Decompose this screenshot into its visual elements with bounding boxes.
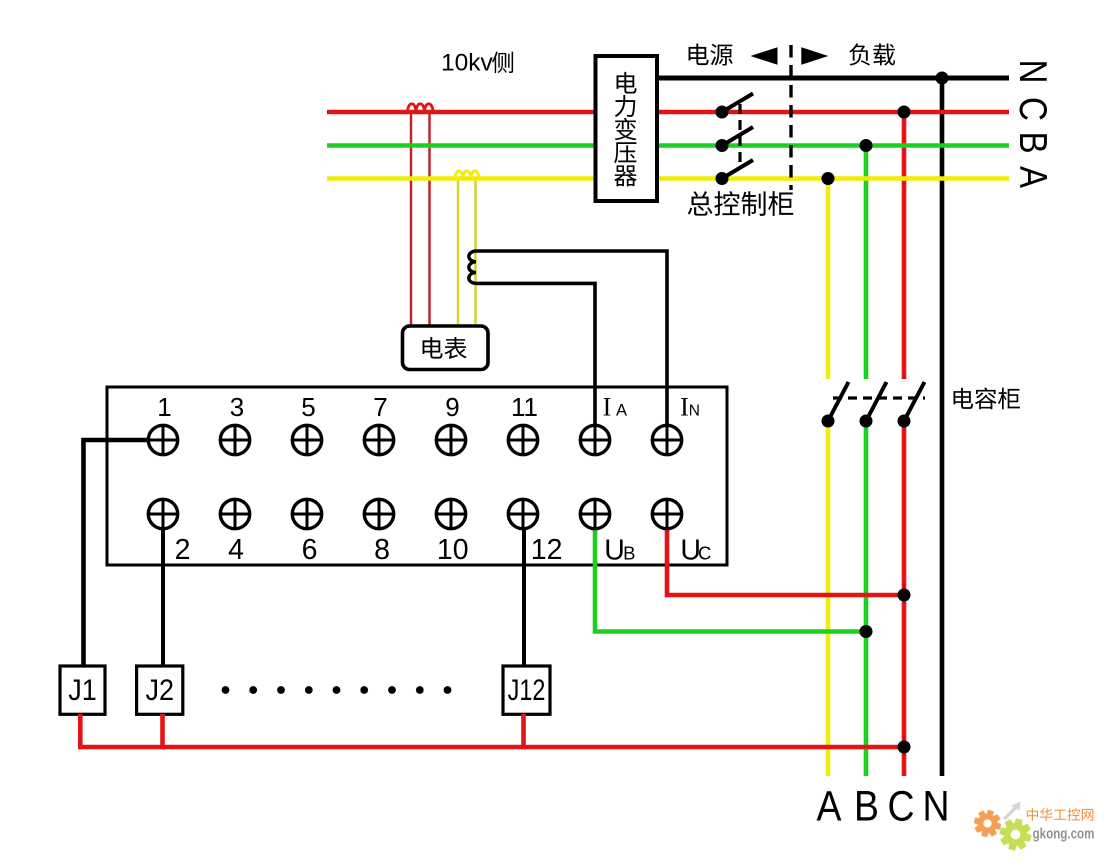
CT coil on phase C bus (red) bbox=[408, 104, 434, 112]
svg-text:7: 7 bbox=[373, 392, 387, 422]
svg-text:N: N bbox=[922, 782, 949, 830]
terminal screw (595,440) bbox=[580, 425, 609, 454]
capacitor switch on feeder x=828 bbox=[822, 382, 849, 428]
terminal screw (307,440) bbox=[292, 425, 321, 454]
breaker switch on bus y=145.5 bbox=[716, 127, 754, 152]
svg-text:U: U bbox=[604, 535, 625, 567]
breaker switch on bus y=112 bbox=[716, 94, 754, 119]
svg-text:8: 8 bbox=[374, 534, 390, 566]
wire phase C bus (red) bbox=[327, 110, 1009, 115]
capacitor switch on feeder x=866 bbox=[860, 382, 887, 428]
wire UC to C feeder (red) bbox=[667, 528, 904, 595]
terminal screw (523,514) bbox=[508, 499, 537, 528]
svg-text:B: B bbox=[854, 782, 879, 830]
svg-text:I: I bbox=[680, 393, 689, 422]
capacitor switch linkage dashed bbox=[833, 396, 925, 399]
svg-text:6: 6 bbox=[302, 534, 318, 566]
svg-text:gkong.com: gkong.com bbox=[1033, 825, 1095, 842]
node junction (904,747) bbox=[898, 741, 911, 754]
svg-text:I: I bbox=[603, 393, 612, 422]
svg-text:C: C bbox=[1011, 97, 1055, 121]
terminal block bbox=[107, 387, 727, 565]
svg-text:10: 10 bbox=[437, 534, 469, 566]
terminal screw (379,440) bbox=[364, 425, 393, 454]
terminal screw (595,514) bbox=[580, 499, 609, 528]
node junction (942,78) bbox=[936, 72, 949, 85]
svg-text:9: 9 bbox=[445, 392, 459, 422]
terminal screw (235,440) bbox=[220, 425, 249, 454]
terminal screw (163,514) bbox=[148, 499, 177, 528]
wire coil to terminal IN bbox=[476, 251, 667, 424]
terminal screw (523,440) bbox=[508, 425, 537, 454]
meter CT coil (black) bbox=[469, 251, 476, 283]
wire phase B feeder vertical (green) bbox=[864, 146, 869, 777]
label 电容柜 bbox=[953, 387, 1019, 409]
svg-text:3: 3 bbox=[230, 392, 244, 422]
svg-text:5: 5 bbox=[301, 392, 315, 422]
arrow right bbox=[801, 47, 828, 65]
node junction (866,145.5) bbox=[860, 139, 873, 152]
svg-text:2: 2 bbox=[175, 534, 191, 566]
logo gkong watermark bbox=[974, 802, 1095, 851]
svg-text:J2: J2 bbox=[145, 674, 174, 708]
capacitor switch on feeder x=904 bbox=[898, 382, 925, 428]
svg-text:J1: J1 bbox=[68, 674, 97, 708]
label 负载 bbox=[849, 43, 895, 65]
wire coil to terminal IA bbox=[476, 283, 595, 424]
terminal screw (667,440) bbox=[652, 425, 681, 454]
terminal screw (163,440) bbox=[148, 425, 177, 454]
label 电源 bbox=[689, 43, 733, 65]
wire terminal1 to J1 bbox=[84, 440, 151, 665]
wire CT-C secondary leads (yellow) bbox=[458, 178, 476, 326]
wire terminal12 to J12 bbox=[522, 528, 526, 665]
svg-text:B: B bbox=[1011, 131, 1055, 153]
wire J1 drop (red) bbox=[78, 714, 83, 749]
label 总控制柜 bbox=[688, 191, 794, 216]
svg-text:A: A bbox=[1011, 166, 1055, 189]
svg-text:10kv: 10kv bbox=[441, 50, 494, 77]
wire phase B bus (green) bbox=[327, 143, 1009, 148]
terminal screw (235,514) bbox=[220, 499, 249, 528]
svg-text:12: 12 bbox=[531, 534, 563, 566]
svg-text:A: A bbox=[817, 782, 842, 830]
terminal screw (379,514) bbox=[364, 499, 393, 528]
terminal screw (451,514) bbox=[436, 499, 465, 528]
node junction (904,595) bbox=[898, 589, 911, 602]
wire phase A feeder vertical (yellow) bbox=[826, 179, 831, 777]
node junction (866,631.5) bbox=[860, 625, 873, 638]
wire neutral feeder vertical (black) bbox=[940, 78, 945, 776]
svg-text:4: 4 bbox=[228, 534, 244, 566]
svg-text:11: 11 bbox=[511, 392, 538, 422]
wire J2 drop (red) bbox=[160, 714, 165, 749]
relay box J12 bbox=[503, 666, 550, 714]
svg-text:C: C bbox=[887, 782, 914, 830]
wire neutral bus N (black) bbox=[657, 76, 1009, 81]
svg-text:N: N bbox=[1011, 60, 1055, 84]
node junction (828,178.5) bbox=[822, 172, 835, 185]
wire bottom red bus bbox=[78, 745, 904, 750]
terminal screw (307,514) bbox=[292, 499, 321, 528]
breaker linkage dashed bbox=[738, 104, 741, 168]
wire terminal2 to J2 bbox=[161, 528, 165, 665]
terminal screw (667,514) bbox=[652, 499, 681, 528]
wire UB to B feeder (green) bbox=[595, 528, 866, 632]
terminal screw (451,440) bbox=[436, 425, 465, 454]
relay box J2 bbox=[137, 666, 183, 714]
transformer box 电力变压器 bbox=[596, 56, 658, 201]
svg-text:N: N bbox=[689, 403, 700, 420]
meter box 电表 bbox=[403, 326, 489, 370]
ellipsis dots between J2 and J12 bbox=[222, 686, 452, 694]
relay box J1 bbox=[60, 666, 105, 714]
wire CT-A secondary leads (red) bbox=[411, 112, 430, 326]
svg-text:1: 1 bbox=[157, 392, 171, 422]
svg-text:B: B bbox=[623, 543, 635, 564]
svg-text:J12: J12 bbox=[508, 673, 546, 706]
wire J12 drop (red) bbox=[521, 714, 526, 749]
svg-text:A: A bbox=[616, 402, 627, 420]
arrow left bbox=[751, 47, 778, 65]
divider dashed line bbox=[789, 45, 792, 190]
breaker switch on bus y=178.5 bbox=[716, 160, 754, 185]
wire phase A bus (yellow) bbox=[327, 176, 1009, 181]
svg-text:C: C bbox=[698, 543, 711, 564]
wire phase C feeder vertical (red) bbox=[902, 112, 907, 776]
wire coil leads inside block bbox=[595, 388, 667, 424]
CT coil on phase A bus (yellow) bbox=[455, 171, 479, 179]
node junction (904,112) bbox=[898, 106, 911, 119]
